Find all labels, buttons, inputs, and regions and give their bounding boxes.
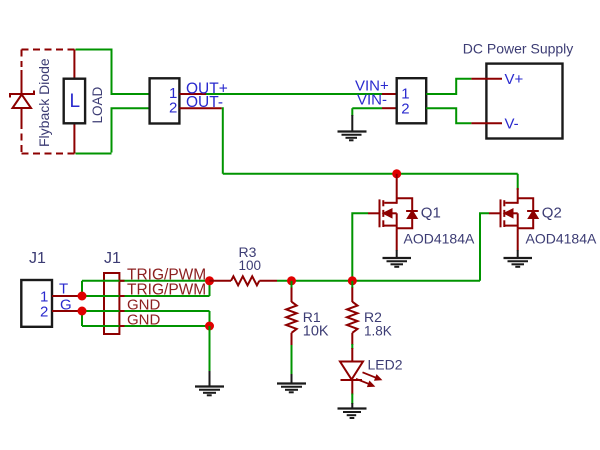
wire Q2 gate xyxy=(480,213,489,280)
load lead top xyxy=(73,50,75,79)
wire R2 to LED xyxy=(351,344,353,349)
svg-text:V+: V+ xyxy=(505,71,524,88)
pin stub V+ xyxy=(471,78,502,80)
svg-text:Flyback Diode: Flyback Diode xyxy=(36,58,52,147)
svg-text:2: 2 xyxy=(40,303,48,320)
ground at R1 xyxy=(277,374,306,392)
header pin stubs xyxy=(119,281,124,326)
flyback dashed enclosure xyxy=(22,50,75,154)
pin stub J1-1 xyxy=(52,295,82,297)
wire drain net horizontal xyxy=(223,173,518,175)
wire OUT+ to VIN+ xyxy=(206,93,382,95)
wire riser row3 to row4 xyxy=(209,311,211,326)
svg-text:G: G xyxy=(60,297,72,314)
flyback diode D1 xyxy=(10,70,34,129)
pin stub V- xyxy=(471,122,502,124)
wire riser T to row1 xyxy=(81,281,83,296)
wire trig row1 xyxy=(82,280,210,282)
svg-text:Q1: Q1 xyxy=(421,205,441,222)
resistor R1 xyxy=(286,288,297,347)
svg-text:Q2: Q2 xyxy=(542,205,562,222)
junction drain net / Q1 xyxy=(392,169,401,178)
load lead bottom xyxy=(73,123,75,153)
wire LED to ground xyxy=(351,394,353,405)
pin stub VIN- xyxy=(382,107,397,109)
junction row4 right xyxy=(205,322,214,331)
connector P1 (OUT) box xyxy=(150,78,180,123)
junction R2 / Q1 gate xyxy=(348,276,357,285)
transistor Q2 xyxy=(489,188,539,251)
svg-text:AOD4184A: AOD4184A xyxy=(404,231,475,247)
wire R3 to gate net xyxy=(277,280,480,282)
wire riser row2 to row1 xyxy=(209,281,211,296)
ground at VIN- xyxy=(338,108,367,140)
wire gnd riser xyxy=(209,326,211,372)
svg-text:L: L xyxy=(70,91,81,112)
junction row1 right xyxy=(205,276,214,285)
pin stub OUT- xyxy=(179,107,221,109)
wire bottom green to out connector pin2 xyxy=(76,153,112,155)
wire top green to out connector xyxy=(76,50,149,95)
ground at LED2 xyxy=(338,403,367,418)
svg-text:GND: GND xyxy=(127,312,161,329)
pin stub J1-2 xyxy=(52,310,82,312)
wire Q1 gate xyxy=(352,213,368,280)
load L1 box xyxy=(64,79,85,124)
svg-text:1.8K: 1.8K xyxy=(364,324,392,339)
ground at J1 gnd xyxy=(195,371,224,395)
wire trig row2 xyxy=(82,295,210,297)
wire VIN- horizontal xyxy=(352,107,382,109)
wire Q2 drain riser xyxy=(517,174,519,190)
transistor Q1 xyxy=(368,174,418,251)
svg-text:LOAD: LOAD xyxy=(90,86,105,123)
wire riser to pin2 xyxy=(112,108,149,152)
connector P2 (VIN) box xyxy=(397,78,427,123)
resistor R2 xyxy=(347,288,358,346)
svg-text:DC Power Supply: DC Power Supply xyxy=(463,41,574,57)
svg-text:2: 2 xyxy=(169,100,177,117)
svg-text:V-: V- xyxy=(505,116,519,133)
junction R1 xyxy=(287,276,296,285)
resistor R3 xyxy=(210,276,278,285)
LED2 xyxy=(340,348,381,395)
svg-text:J1: J1 xyxy=(29,250,46,267)
svg-text:10K: 10K xyxy=(303,324,329,340)
wire riser G to row4 xyxy=(81,311,83,326)
wire OUT- down to drain net xyxy=(222,108,223,174)
wire VIN pin1 to V+ xyxy=(426,79,471,94)
svg-text:100: 100 xyxy=(239,258,262,273)
wire VIN pin2 to V- xyxy=(426,108,471,123)
wire gnd row4 xyxy=(82,325,210,327)
ground at Q2 source xyxy=(504,250,533,267)
svg-text:AOD4184A: AOD4184A xyxy=(526,231,597,247)
wire R1 to ground xyxy=(291,345,293,375)
svg-text:T: T xyxy=(59,281,68,298)
header J1 body xyxy=(104,273,119,334)
svg-text:LED2: LED2 xyxy=(368,357,403,373)
wire gnd row3 xyxy=(82,310,210,312)
svg-text:J1: J1 xyxy=(104,250,121,267)
wire R2 top stub xyxy=(351,281,353,288)
junction G xyxy=(78,307,87,316)
pin stub OUT+ xyxy=(179,93,206,95)
pin stub VIN+ xyxy=(382,93,397,95)
DC power supply box xyxy=(486,64,562,139)
connector J1 box xyxy=(21,280,52,327)
ground at Q1 source xyxy=(383,250,412,267)
svg-text:OUT-: OUT- xyxy=(186,94,223,111)
wire R1 top stub xyxy=(291,281,293,288)
junction T xyxy=(78,292,87,301)
svg-text:2: 2 xyxy=(401,100,409,117)
